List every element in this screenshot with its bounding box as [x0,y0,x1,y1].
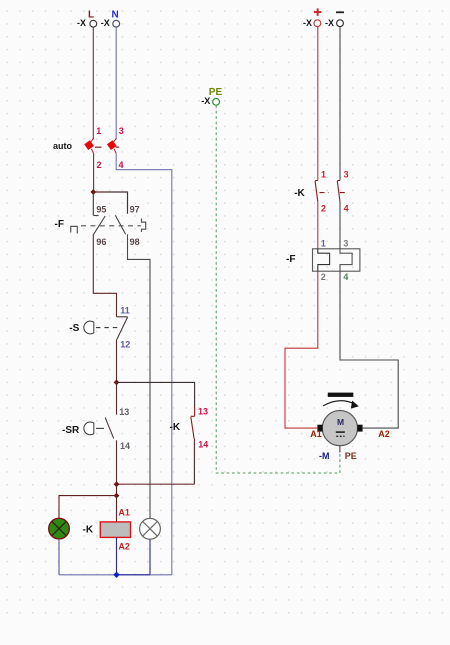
-K main linkage dashed [320,192,347,194]
pin 1 auto [96,126,101,136]
terminal -X L [77,9,97,28]
pin 95 [96,204,106,214]
pin 3 K main [344,170,349,180]
node J3 junction [114,481,120,487]
wire J3 to J4 [116,484,118,495]
svg-text:-X: -X [201,96,210,106]
terminal -X plus [303,8,321,28]
-F trip device symbol [71,226,78,233]
wire F pole2 to motor A1 [285,271,318,428]
label -K aux [170,422,181,433]
wire from auto 4 to N rail vertical [116,153,172,574]
wire green lamp to bottom rail [58,539,60,575]
svg-text:-X: -X [303,18,312,28]
pin 96 [96,237,106,247]
svg-text:-X: -X [325,18,334,28]
svg-text:3: 3 [343,239,348,249]
terminal -X N [101,9,120,28]
wire plus from terminal to -K contact 1 [317,27,319,181]
node J1 junction [90,189,96,195]
pin 3 F [343,239,348,249]
svg-text:auto: auto [53,141,73,151]
svg-text:97: 97 [130,204,140,214]
pin PE motor [345,451,357,461]
svg-text:1: 1 [321,239,326,249]
svg-text:1: 1 [96,126,101,136]
wire 96 down and jog to -S column [93,235,116,316]
pin A2 motor [378,429,390,439]
thermal contact -F 95-96 (NC) [93,216,105,236]
contact -K aux 13-14 (NO) [191,416,195,484]
svg-text:11: 11 [120,306,130,316]
wire lamp to bottom rail [149,539,151,575]
label auto [53,141,73,151]
wire -K aux 14 back to node J3 [117,483,195,485]
svg-text:98: 98 [130,237,140,247]
auto switch linkage dashes [95,146,119,148]
node J2 junction [114,380,120,386]
wire J4 to green lamp [59,496,117,519]
pin A1 motor [310,429,322,439]
svg-text:1: 1 [321,170,326,180]
svg-text:12: 12 [120,339,130,349]
motor terminal stud A2 [357,425,362,432]
svg-text:95: 95 [96,204,106,214]
label -F main [286,254,295,265]
svg-text:-S: -S [69,323,79,334]
-F heater element pole 3-4 [340,249,352,271]
svg-text:13: 13 [119,407,129,417]
node J4 junction [114,493,120,499]
pin 98 [130,237,140,247]
pin 11 [120,306,130,316]
label -F aux [55,219,64,230]
pin 12 [120,339,130,349]
svg-text:-F: -F [55,219,64,230]
wire from auto 2 down to node J1 [93,153,95,192]
pin 4 auto [119,160,124,170]
label -SR [62,425,80,436]
svg-text:2: 2 [321,272,326,282]
green indicator lamp [49,518,70,539]
pin 13 SR [119,407,129,417]
svg-text:3: 3 [119,126,124,136]
svg-text:-K: -K [294,188,305,199]
svg-text:PE: PE [209,87,223,98]
svg-text:-SR: -SR [62,425,80,436]
signal lamp (white) [140,518,161,539]
pin A1 coil [118,507,130,517]
contactor -K main contact 1-2 [315,181,318,249]
node J5 junction on rail [113,572,119,578]
-F heater element pole 1-2 [318,249,330,271]
wire 98 down jog to lamp column [128,234,151,518]
-SR linkage dashed [96,427,104,429]
motor -M body [322,411,357,446]
pin 2 K main [321,203,326,213]
pin 97 [130,204,140,214]
svg-text:-K: -K [83,524,94,535]
svg-text:14: 14 [198,440,208,450]
svg-text:M: M [337,417,344,427]
pin 1 F [321,239,326,249]
svg-text:96: 96 [96,237,106,247]
pin 13 K aux [198,406,208,416]
pin 14 SR [120,441,130,451]
svg-text:2: 2 [321,203,326,213]
bottom N rail [59,574,172,576]
svg-text:A1: A1 [310,429,322,439]
coil -K A1-A2 [100,496,130,575]
label -K coil [83,524,94,535]
svg-text:13: 13 [198,406,208,416]
svg-text:A2: A2 [118,542,130,552]
svg-text:4: 4 [119,160,124,170]
svg-text:-F: -F [286,254,295,265]
pin 14 K aux [198,440,208,450]
pushbutton -S head [84,321,94,334]
pin 2 auto [97,160,102,170]
svg-text:-M: -M [319,451,330,461]
contactor -K main contact 3-4 [337,181,340,249]
pin 2 F [321,272,326,282]
svg-text:-K: -K [170,422,181,433]
svg-text:PE: PE [345,451,357,461]
svg-text:3: 3 [344,170,349,180]
wire minus from terminal to -K contact 3 [339,27,341,181]
-F latch symbol [142,218,146,232]
pin 4 F [343,272,348,282]
contact -S 11-12 (NC) [117,317,128,340]
svg-text:A1: A1 [118,507,130,517]
thermal overload -F body [313,249,360,271]
wire F pole4 to motor A2 [340,271,398,428]
PE protective earth dashed wire [216,105,340,473]
pushbutton -SR head [84,422,94,435]
terminal -X minus [325,11,344,28]
wire L from terminal to auto switch [92,27,94,139]
svg-text:-X: -X [101,18,110,28]
thermal contact -F 97-98 (NO) [115,215,125,234]
wire N from terminal to auto switch [115,27,117,139]
terminal -X PE [201,87,222,106]
svg-text:N: N [112,9,119,20]
motor rotation arrow [323,401,359,409]
pin A2 coil [118,542,130,552]
label -S [69,323,79,334]
wire J2 to -K aux contact [117,382,195,416]
-F linkage dashed line [81,225,141,227]
breaker auto pole 3-4 [107,139,117,154]
svg-text:14: 14 [120,441,130,451]
wire J1 to contact 97 [93,192,127,214]
pin 3 auto [119,126,124,136]
wire 12 down to node J2 [116,339,118,382]
breaker auto pole 1-2 [84,139,94,154]
wire J1 down to contact 95 [92,192,94,215]
svg-text:A2: A2 [378,429,390,439]
pin 4 K main [344,203,349,213]
contact -SR 13-14 (NO) [105,382,116,484]
motor terminal stud A1 [317,425,322,432]
-S linkage dashed [96,327,121,329]
svg-text:4: 4 [343,272,348,282]
motor PE stub wire [339,446,341,453]
label -M [319,451,330,461]
svg-text:L: L [88,9,94,20]
motor direction bar [328,393,354,397]
svg-text:-X: -X [77,18,86,28]
svg-text:4: 4 [344,203,349,213]
pin 1 K main [321,170,326,180]
label -K main [294,188,305,199]
svg-text:2: 2 [97,160,102,170]
